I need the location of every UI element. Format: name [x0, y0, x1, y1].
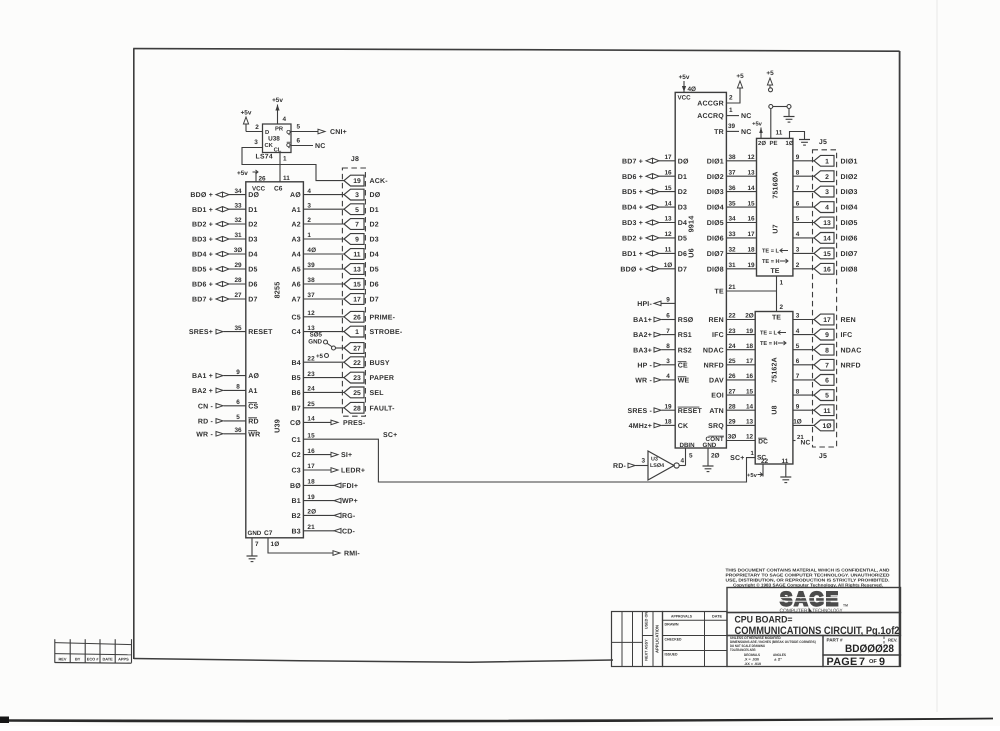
svg-text:D2: D2: [248, 222, 257, 229]
svg-text:TR: TR: [714, 129, 724, 136]
svg-text:2: 2: [729, 95, 733, 102]
svg-text:TE: TE: [715, 289, 724, 296]
svg-text:24: 24: [728, 343, 736, 350]
svg-text:39: 39: [307, 262, 315, 269]
svg-text:TOLERANCES ARE:: TOLERANCES ARE:: [730, 648, 756, 652]
svg-text:A5: A5: [292, 267, 301, 274]
svg-text:NDAC: NDAC: [703, 347, 724, 354]
svg-text:U38: U38: [268, 136, 280, 143]
svg-text:8255: 8255: [273, 282, 282, 299]
svg-text:27: 27: [728, 388, 736, 395]
svg-text:A1: A1: [248, 388, 257, 395]
svg-text:DIØ7: DIØ7: [707, 250, 724, 258]
svg-text:D7: D7: [248, 297, 257, 304]
svg-text:11: 11: [823, 408, 830, 415]
svg-text:B4: B4: [292, 360, 301, 367]
svg-text:SRES+: SRES+: [189, 329, 213, 336]
svg-text:16: 16: [664, 169, 672, 176]
svg-text:DATE: DATE: [102, 657, 113, 662]
svg-text:9: 9: [879, 656, 885, 668]
svg-text:13: 13: [353, 267, 361, 274]
svg-text:HPI-: HPI-: [637, 301, 652, 308]
svg-text:5: 5: [689, 453, 693, 460]
svg-text:1: 1: [283, 156, 287, 163]
svg-text:B2: B2: [292, 513, 301, 520]
svg-text:SEL: SEL: [370, 390, 385, 397]
svg-text:17: 17: [307, 463, 315, 470]
svg-text:RSØ: RSØ: [678, 316, 694, 324]
svg-text:U39: U39: [273, 419, 282, 433]
svg-text:18: 18: [664, 419, 672, 426]
svg-text:19: 19: [307, 494, 315, 501]
svg-text:LSØ4: LSØ4: [650, 463, 664, 469]
svg-text:1Ø: 1Ø: [664, 262, 673, 269]
svg-text:4MHz+: 4MHz+: [629, 423, 652, 430]
svg-text:CE: CE: [678, 362, 688, 369]
svg-text:GND: GND: [248, 530, 262, 537]
svg-text:ANGLES: ANGLES: [773, 653, 787, 657]
svg-text:+5v: +5v: [241, 110, 252, 117]
svg-text:ISSUED: ISSUED: [665, 653, 678, 657]
svg-text:7: 7: [859, 656, 865, 668]
svg-text:33: 33: [234, 202, 242, 209]
svg-text:17: 17: [353, 297, 361, 304]
svg-text:12: 12: [307, 310, 315, 317]
svg-text:B6: B6: [292, 390, 301, 397]
svg-text:4: 4: [681, 458, 685, 465]
svg-text:4: 4: [307, 188, 311, 195]
svg-text:11: 11: [782, 458, 789, 465]
svg-text:1: 1: [307, 232, 311, 239]
svg-text:13: 13: [746, 419, 754, 426]
svg-text:D5: D5: [248, 267, 257, 274]
svg-text:7: 7: [825, 362, 829, 369]
svg-text:BD4 +: BD4 +: [192, 252, 213, 259]
svg-text:DIØ5: DIØ5: [841, 219, 858, 227]
svg-text:BA2 +: BA2 +: [192, 388, 213, 395]
svg-text:8: 8: [666, 343, 670, 350]
svg-text:WE: WE: [678, 378, 690, 385]
svg-text:2: 2: [307, 217, 311, 224]
svg-text:15: 15: [747, 200, 755, 207]
svg-text:BD2 +: BD2 +: [192, 222, 213, 229]
svg-text:24: 24: [307, 386, 315, 393]
svg-text:6: 6: [825, 378, 829, 385]
svg-text:D1: D1: [370, 207, 379, 214]
svg-text:9914: 9914: [687, 216, 696, 233]
svg-text:22: 22: [307, 355, 315, 362]
svg-text:36: 36: [728, 185, 736, 192]
svg-text:4: 4: [283, 116, 287, 123]
svg-text:A7: A7: [292, 297, 301, 304]
svg-text:SC+: SC+: [383, 432, 397, 439]
svg-text:1: 1: [355, 329, 359, 336]
svg-text:11: 11: [353, 252, 360, 259]
svg-text:PAGE: PAGE: [827, 656, 858, 668]
svg-text:D7: D7: [370, 297, 379, 304]
svg-text:9: 9: [825, 332, 829, 339]
svg-text:BD6 +: BD6 +: [192, 282, 213, 289]
svg-text:U3: U3: [651, 457, 658, 463]
svg-text:IFC: IFC: [841, 332, 853, 339]
svg-text:NC: NC: [741, 129, 752, 136]
svg-text:A6: A6: [292, 282, 301, 289]
svg-text:9: 9: [796, 154, 800, 161]
svg-text:DATE: DATE: [712, 615, 723, 619]
svg-text:23: 23: [728, 328, 736, 335]
svg-text:D3: D3: [678, 205, 687, 212]
svg-text:TM: TM: [843, 604, 848, 608]
svg-text:15: 15: [307, 432, 315, 439]
svg-text:D6: D6: [678, 251, 687, 258]
svg-text:34: 34: [728, 216, 736, 223]
svg-text:+5v: +5v: [679, 74, 690, 81]
svg-text:5: 5: [236, 414, 240, 421]
svg-text:2Ø: 2Ø: [745, 313, 754, 320]
svg-text:TE = L: TE = L: [762, 249, 780, 255]
svg-text:29: 29: [728, 419, 736, 426]
svg-text:D1: D1: [678, 174, 687, 181]
svg-text:PE: PE: [770, 140, 778, 147]
svg-text:23: 23: [353, 375, 361, 382]
svg-text:USED ON: USED ON: [645, 612, 649, 630]
svg-text:31: 31: [728, 262, 736, 269]
svg-text:3Ø: 3Ø: [728, 434, 737, 441]
svg-text:BD7 +: BD7 +: [622, 158, 643, 165]
svg-text:CN -: CN -: [198, 403, 214, 410]
svg-text:39: 39: [728, 123, 736, 130]
svg-text:C2: C2: [292, 452, 301, 459]
svg-text:BD1 +: BD1 +: [192, 207, 213, 214]
svg-text:GND: GND: [703, 442, 717, 449]
svg-text:+5: +5: [316, 353, 324, 360]
svg-text:CHECKED: CHECKED: [665, 638, 682, 642]
svg-text:17: 17: [746, 358, 754, 365]
svg-text:NEXT ASSY: NEXT ASSY: [645, 639, 649, 661]
svg-text:28: 28: [728, 403, 736, 410]
svg-text:27: 27: [353, 346, 361, 353]
svg-text:4: 4: [825, 205, 829, 212]
svg-text:22: 22: [353, 360, 361, 367]
svg-text:28: 28: [234, 277, 242, 284]
svg-text:STROBE-: STROBE-: [370, 329, 403, 336]
svg-text:SC+: SC+: [730, 455, 744, 462]
svg-text:15: 15: [746, 388, 754, 395]
svg-text:13: 13: [823, 220, 831, 227]
svg-text:SRES -: SRES -: [627, 408, 652, 415]
svg-text:26: 26: [259, 176, 267, 183]
svg-text:SØ5: SØ5: [310, 332, 323, 339]
svg-text:13: 13: [664, 216, 672, 223]
svg-text:BD4 +: BD4 +: [622, 205, 643, 212]
svg-text:FAULT-: FAULT-: [370, 405, 396, 412]
svg-text:11: 11: [665, 247, 672, 254]
svg-text:NC: NC: [801, 440, 811, 447]
svg-text:WR -: WR -: [196, 431, 213, 438]
svg-text:14: 14: [823, 236, 831, 243]
svg-text:+5v: +5v: [747, 473, 758, 479]
svg-text:A1: A1: [292, 207, 301, 214]
svg-text:SAGE: SAGE: [780, 589, 840, 611]
svg-text:9: 9: [666, 297, 670, 304]
svg-text:BD7 +: BD7 +: [192, 297, 213, 304]
svg-text:J8: J8: [351, 156, 359, 163]
svg-text:APPROVALS: APPROVALS: [671, 615, 693, 619]
svg-text:DØ: DØ: [678, 157, 689, 165]
svg-text:18: 18: [307, 479, 315, 486]
svg-text:U7: U7: [773, 224, 780, 233]
svg-text:5: 5: [297, 124, 301, 131]
svg-text:RMI-: RMI-: [344, 551, 360, 558]
svg-text:16: 16: [823, 266, 831, 273]
svg-text:CS: CS: [248, 403, 258, 410]
svg-text:BD3 +: BD3 +: [192, 237, 213, 244]
svg-text:BD5 +: BD5 +: [622, 189, 643, 196]
svg-text:1Ø: 1Ø: [786, 140, 794, 147]
svg-text:11: 11: [283, 175, 290, 182]
svg-text:RD -: RD -: [198, 419, 214, 426]
svg-text:NDAC: NDAC: [841, 347, 862, 354]
svg-text:NRFD: NRFD: [704, 362, 724, 369]
svg-text:DIØ3: DIØ3: [841, 188, 858, 196]
svg-text:4: 4: [796, 328, 800, 335]
svg-text:5: 5: [355, 207, 359, 214]
svg-text:NC: NC: [741, 113, 752, 120]
svg-text:19: 19: [746, 328, 754, 335]
svg-text:33: 33: [728, 231, 736, 238]
svg-text:17: 17: [664, 154, 672, 161]
svg-text:7: 7: [666, 328, 670, 335]
svg-text:BUSY: BUSY: [370, 360, 390, 367]
svg-text:35: 35: [234, 325, 242, 332]
svg-text:ACCGR: ACCGR: [697, 101, 724, 108]
svg-text:22: 22: [761, 458, 769, 465]
svg-text:2Ø: 2Ø: [307, 509, 316, 516]
svg-text:8: 8: [236, 384, 240, 391]
svg-text:Copyright © 1983 SAGE Compu: Copyright © 1983 SAGE Computer Technolog…: [733, 582, 883, 587]
svg-text:14: 14: [664, 200, 672, 207]
svg-text:B3: B3: [292, 528, 301, 535]
svg-text:TE = H: TE = H: [762, 259, 780, 265]
svg-text:7: 7: [355, 222, 359, 229]
svg-text:NC: NC: [315, 143, 326, 150]
svg-text:17: 17: [747, 231, 755, 238]
svg-text:9: 9: [236, 369, 240, 376]
svg-text:32: 32: [728, 247, 736, 254]
svg-text:APPS: APPS: [118, 657, 129, 662]
svg-text:D4: D4: [248, 252, 257, 259]
svg-text:C1: C1: [292, 437, 301, 444]
svg-text:DIØ6: DIØ6: [841, 235, 858, 243]
svg-text:TE = H: TE = H: [760, 341, 778, 347]
svg-text:BA2+: BA2+: [633, 332, 652, 339]
svg-text:7: 7: [255, 541, 259, 548]
svg-text:4Ø: 4Ø: [688, 86, 697, 93]
svg-text:TE: TE: [772, 315, 781, 322]
svg-text:WP+: WP+: [342, 498, 358, 505]
svg-text:RS1: RS1: [678, 332, 692, 339]
svg-text:PRIME-: PRIME-: [370, 314, 396, 321]
svg-text:PR: PR: [275, 127, 284, 133]
svg-text:VCC: VCC: [678, 95, 692, 102]
svg-text:BA3+: BA3+: [633, 347, 652, 354]
svg-text:DIØ5: DIØ5: [707, 219, 724, 227]
svg-text:3: 3: [796, 247, 800, 254]
svg-text:BD6 +: BD6 +: [622, 174, 643, 181]
svg-text:6: 6: [666, 313, 670, 320]
svg-text:4: 4: [796, 231, 800, 238]
svg-text:LEDR+: LEDR+: [341, 468, 365, 475]
svg-text:ACK-: ACK-: [370, 178, 389, 185]
svg-text:HP -: HP -: [637, 362, 652, 369]
svg-text:6: 6: [297, 138, 301, 145]
svg-text:D7: D7: [678, 266, 687, 273]
svg-text:BD1 +: BD1 +: [622, 251, 643, 258]
svg-text:1: 1: [729, 107, 733, 114]
svg-text:C3: C3: [292, 468, 301, 475]
svg-text:1: 1: [825, 158, 829, 165]
svg-text:9: 9: [355, 237, 359, 244]
svg-text:NRFD: NRFD: [841, 362, 861, 369]
svg-text:11: 11: [776, 130, 783, 137]
svg-text:OF: OF: [869, 659, 877, 665]
svg-text:RG-: RG-: [342, 513, 356, 520]
svg-text:+5: +5: [736, 73, 744, 80]
svg-text:2Ø: 2Ø: [711, 453, 720, 460]
svg-text:REN: REN: [709, 317, 724, 324]
svg-text:15: 15: [353, 282, 361, 289]
svg-text:38: 38: [728, 154, 736, 161]
svg-text:19: 19: [664, 403, 672, 410]
svg-text:U8: U8: [772, 405, 779, 414]
svg-text:PRES-: PRES-: [343, 420, 366, 427]
svg-text:FDI+: FDI+: [342, 483, 358, 490]
svg-text:35: 35: [728, 200, 736, 207]
svg-text:29: 29: [234, 262, 242, 269]
svg-text:1Ø: 1Ø: [822, 423, 831, 430]
svg-text:6: 6: [796, 200, 800, 207]
svg-text:DIØ8: DIØ8: [841, 265, 858, 273]
svg-text:D4: D4: [678, 220, 687, 227]
svg-text:D4: D4: [370, 252, 379, 259]
svg-text:15: 15: [823, 251, 831, 258]
svg-text:34: 34: [234, 188, 242, 195]
svg-text:23: 23: [307, 371, 315, 378]
svg-text:DIØ1: DIØ1: [841, 157, 858, 165]
svg-text:PART #: PART #: [827, 638, 843, 643]
svg-text:B5: B5: [292, 375, 301, 382]
svg-text:SI+: SI+: [341, 452, 352, 459]
svg-text:BD3 +: BD3 +: [622, 220, 643, 227]
svg-text:DIØ1: DIØ1: [707, 157, 724, 165]
svg-text:RD: RD: [248, 419, 259, 426]
svg-text:D1: D1: [248, 207, 257, 214]
svg-text:DIØ4: DIØ4: [841, 204, 858, 212]
svg-text:16: 16: [747, 216, 755, 223]
svg-text:CK: CK: [678, 423, 689, 430]
svg-text:5: 5: [825, 393, 829, 400]
svg-text:3: 3: [254, 139, 258, 146]
svg-text:8: 8: [796, 169, 800, 176]
svg-text:RESET: RESET: [248, 329, 273, 336]
svg-text:12: 12: [746, 434, 754, 441]
svg-text:2Ø: 2Ø: [758, 140, 766, 147]
svg-text:DIØ7: DIØ7: [841, 250, 858, 258]
svg-text:AØ: AØ: [248, 372, 259, 380]
svg-text:DECIMALS: DECIMALS: [744, 653, 761, 657]
svg-text:SRQ: SRQ: [708, 423, 724, 430]
svg-text:BD2 +: BD2 +: [622, 236, 643, 243]
svg-text:3: 3: [825, 189, 829, 196]
svg-text:25: 25: [307, 401, 315, 408]
svg-text:+5: +5: [766, 70, 774, 77]
svg-text:D6: D6: [248, 282, 257, 289]
svg-text:26: 26: [353, 314, 361, 321]
svg-text:A4: A4: [292, 252, 301, 259]
svg-text:CK: CK: [265, 142, 274, 149]
svg-text:C5: C5: [292, 314, 301, 321]
svg-text:WR -: WR -: [635, 378, 652, 385]
svg-text:LS74: LS74: [256, 154, 273, 161]
svg-text:D5: D5: [678, 236, 687, 243]
svg-text:J5: J5: [819, 139, 827, 146]
svg-text:16: 16: [746, 373, 754, 380]
svg-text:37: 37: [728, 169, 736, 176]
svg-text:25: 25: [353, 390, 361, 397]
svg-text:A2: A2: [292, 222, 301, 229]
svg-text:ATN: ATN: [709, 408, 723, 415]
svg-text:BDØ +: BDØ +: [190, 191, 213, 199]
svg-text:CØ: CØ: [290, 419, 301, 427]
svg-text:DIØ2: DIØ2: [707, 173, 724, 181]
svg-text:6: 6: [236, 399, 240, 406]
svg-text:RS2: RS2: [678, 347, 692, 354]
svg-text:6: 6: [796, 358, 800, 365]
svg-text:14: 14: [747, 185, 755, 192]
svg-text:2: 2: [825, 174, 829, 181]
svg-text:BY: BY: [75, 657, 81, 662]
svg-text:2: 2: [255, 124, 259, 131]
svg-text:7516ØA: 7516ØA: [772, 171, 780, 198]
svg-text:CL: CL: [274, 147, 282, 154]
svg-text:3: 3: [355, 192, 359, 199]
svg-text:DIØ6: DIØ6: [707, 235, 724, 243]
svg-text:RD-: RD-: [613, 463, 627, 470]
svg-text:ACCRQ: ACCRQ: [697, 113, 724, 120]
svg-text:28: 28: [353, 405, 361, 412]
svg-text:CD-: CD-: [342, 528, 356, 535]
svg-text:D2: D2: [678, 189, 687, 196]
svg-text:2: 2: [796, 262, 800, 269]
svg-text:19: 19: [353, 178, 361, 185]
svg-text:.XX = .010: .XX = .010: [744, 662, 761, 666]
svg-text:13: 13: [747, 169, 755, 176]
svg-text:APPLICATION: APPLICATION: [655, 625, 660, 653]
svg-text:C6: C6: [274, 186, 283, 193]
svg-text:ECO #: ECO #: [87, 657, 100, 662]
svg-text:BDØ +: BDØ +: [620, 265, 643, 273]
svg-text:19: 19: [747, 262, 755, 269]
svg-text:B7: B7: [292, 405, 301, 412]
svg-text:3Ø: 3Ø: [234, 247, 243, 254]
svg-text:BA1+: BA1+: [633, 317, 652, 324]
svg-text:9: 9: [796, 403, 800, 410]
svg-text:14: 14: [307, 416, 315, 423]
svg-text:DIØ8: DIØ8: [707, 265, 724, 273]
svg-text:Q: Q: [286, 129, 291, 136]
svg-text:21: 21: [728, 284, 736, 291]
svg-text:DRAWN: DRAWN: [665, 623, 679, 627]
